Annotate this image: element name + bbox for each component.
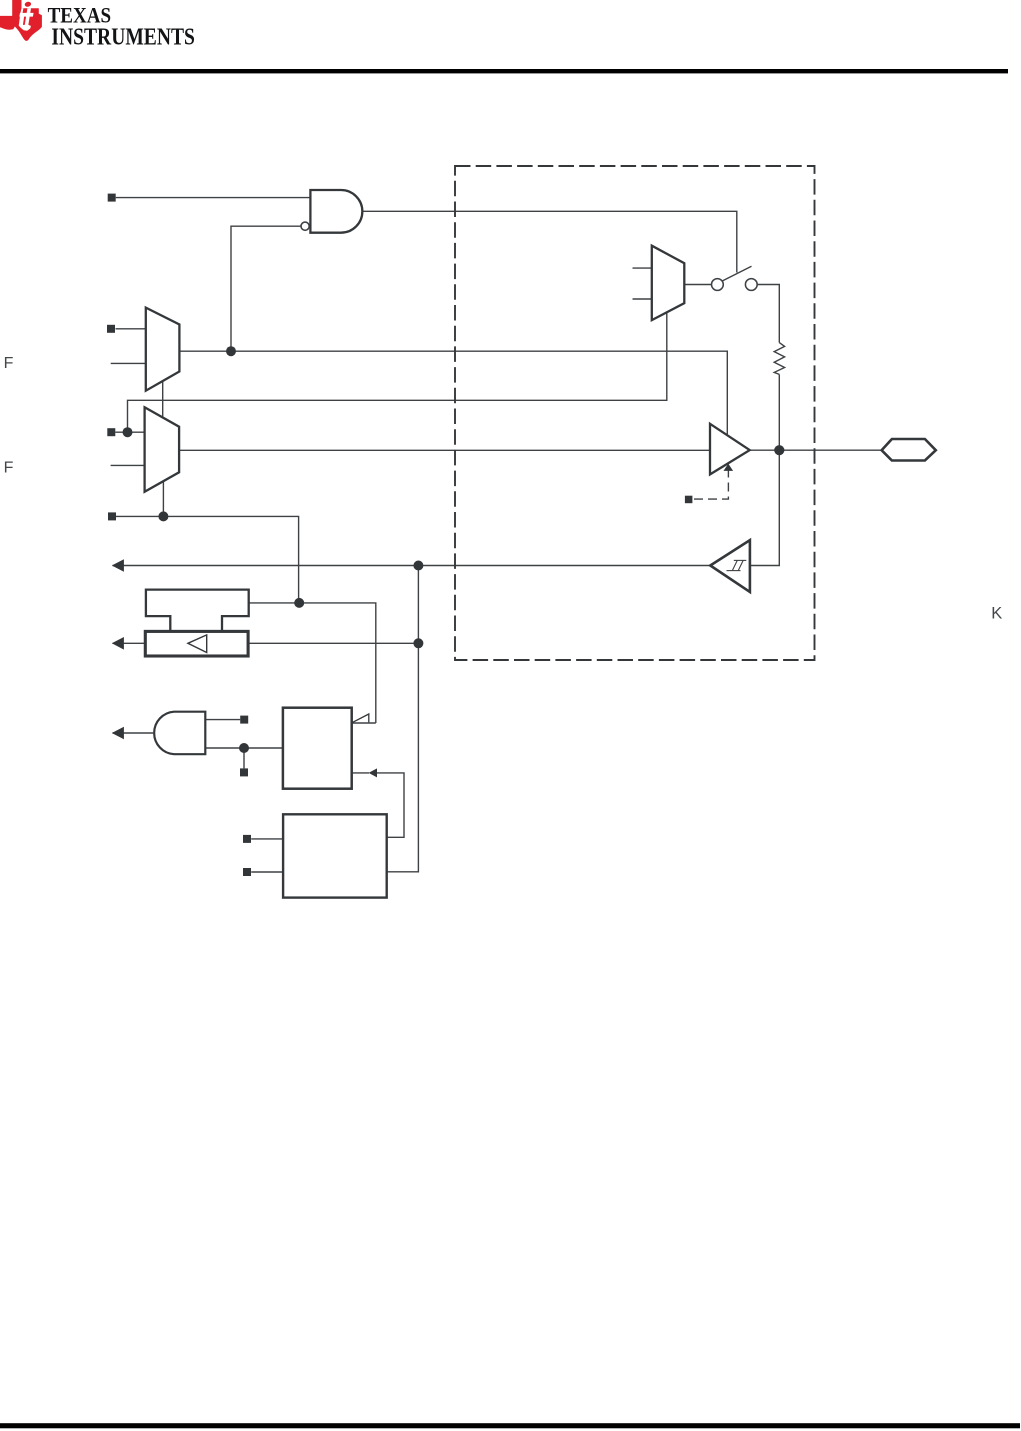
junction node output xyxy=(774,445,784,455)
dashed output-enable control line xyxy=(692,469,728,500)
wire mux1 input 2 stub xyxy=(111,362,146,364)
left arrow on AND output xyxy=(112,727,124,740)
switch contact circles xyxy=(301,222,757,290)
control logic box xyxy=(283,814,387,897)
wire buffer output to pad xyxy=(750,449,882,451)
NAND gate U1 xyxy=(310,190,362,233)
output buffer triangle xyxy=(710,424,750,475)
terminal square OE dashed xyxy=(685,496,693,504)
footer rule xyxy=(0,1423,1020,1428)
TI logo white i stem xyxy=(25,8,31,25)
wire output node down to schmitt input xyxy=(750,450,779,565)
svg-text:INSTRUMENTS: INSTRUMENTS xyxy=(51,23,195,50)
terminal square select xyxy=(108,512,116,520)
junction node mux2 input xyxy=(123,427,133,437)
terminal square box in2 xyxy=(243,868,251,876)
wire select input terminal run xyxy=(116,516,299,603)
wire mux3 input 2 stub xyxy=(633,298,652,300)
TI logo white base blob xyxy=(19,25,31,31)
wire mux1 output to output buffer top xyxy=(179,351,727,434)
terminal square gate in2 xyxy=(240,768,248,776)
wire flip-flop right stub to arrow xyxy=(352,772,369,774)
wire resistor to output node xyxy=(778,374,780,450)
left arrow on driver line xyxy=(112,637,124,650)
mux1 trapezoid xyxy=(146,308,180,391)
wire driver-box output left to arrow xyxy=(113,642,146,644)
terminal square mux1 xyxy=(107,325,115,333)
wire control box input 2 xyxy=(251,871,283,873)
wire mux3 select feedback: mux3 bottom to mux2 input node xyxy=(128,313,667,433)
hysteresis glyph in schmitt xyxy=(727,560,747,570)
wire mirrored AND input 2 to flip-flop xyxy=(205,747,283,749)
flip-flop box xyxy=(283,708,352,789)
wire mux3 output to switch xyxy=(684,284,711,286)
junction node delay output xyxy=(294,598,304,608)
wire mux1 input 1 xyxy=(116,328,146,330)
schmitt trigger triangle xyxy=(710,540,750,592)
dashed boundary box xyxy=(455,166,815,660)
wire node to terminal below xyxy=(243,748,245,768)
terminal square A xyxy=(108,194,116,202)
wire mux3 input 1 stub xyxy=(633,267,652,269)
junction node AND input xyxy=(239,743,249,753)
flip-flop clock edge triangle xyxy=(353,714,369,722)
terminal square gate in1 xyxy=(240,716,248,724)
wire mirrored AND input 1 xyxy=(205,719,240,721)
wire mirrored AND output to left arrow xyxy=(113,732,154,734)
NAND input bubble xyxy=(301,222,309,230)
wire delay-box output to flip-flop clock xyxy=(249,603,376,723)
wire schmitt output to left arrow xyxy=(113,565,711,567)
junction node select xyxy=(158,511,168,521)
junction node driver line xyxy=(413,638,423,648)
wire control box output to flip-flop arrow xyxy=(377,773,404,837)
wire mux2 input 2 stub xyxy=(111,464,145,466)
wire mux2 input 1 xyxy=(115,431,144,433)
terminal square box in1 xyxy=(243,835,251,843)
terminal square mux2 xyxy=(107,428,115,436)
wire mux2 output to output buffer input xyxy=(179,449,710,451)
header rule xyxy=(0,69,1008,73)
TI logo white t stem xyxy=(20,8,23,13)
TI logo white t crossbar xyxy=(19,13,33,17)
up arrow into buffer xyxy=(724,464,734,471)
wire flip-flop clock stub xyxy=(352,722,376,724)
svg-text:F: F xyxy=(4,459,14,476)
TI logo red i dot xyxy=(24,1,31,7)
mux2 trapezoid xyxy=(145,407,180,492)
wire switch to resistor xyxy=(757,285,779,343)
wire feedback vertical to lower control box xyxy=(387,566,419,872)
delay element T-shaped box xyxy=(146,590,249,631)
left arrow into flip-flop xyxy=(369,768,377,777)
wire NAND output to switch blade xyxy=(363,211,737,272)
mirrored AND gate xyxy=(154,712,205,755)
wire NAND inverted input from mux1 output node xyxy=(231,226,301,351)
mux3 trapezoid (in dashed box) xyxy=(652,246,685,320)
wire select branch up to mux2 xyxy=(162,481,164,516)
svg-text:F: F xyxy=(4,355,14,372)
driver box (bold) xyxy=(145,631,248,656)
output pad hexagon xyxy=(882,439,936,461)
resistor R zigzag xyxy=(774,343,784,375)
svg-text:K: K xyxy=(991,605,1002,623)
junction node on mux1 output xyxy=(226,346,236,356)
wire driver-box output right to feedback node xyxy=(248,642,418,644)
wire select chain between mux1 and mux2 xyxy=(162,381,164,417)
wire control box input 1 xyxy=(251,838,283,840)
wire input A to NAND xyxy=(116,197,311,199)
junction node schmitt line xyxy=(413,561,423,571)
driver box triangle glyph xyxy=(188,635,207,653)
switch blade xyxy=(723,266,752,280)
TI logo red Texas-shape bug xyxy=(0,0,42,41)
left arrow on schmitt line xyxy=(112,559,124,572)
